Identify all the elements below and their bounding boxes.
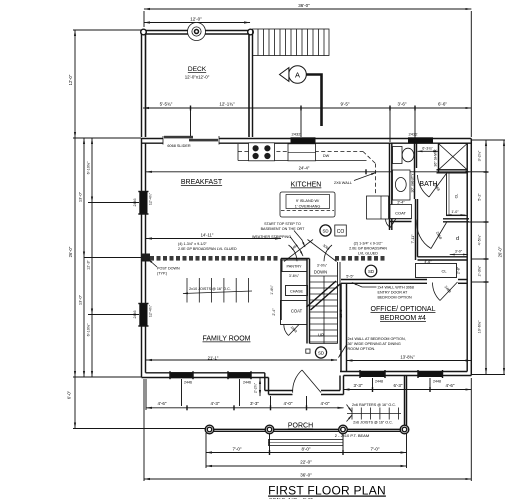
hall bottom wall (closet top) — [418, 256, 468, 258]
chase box — [286, 286, 308, 296]
window 2446 family b1 — [170, 372, 193, 378]
left dim line x75 6'-0" — [74, 377, 76, 429]
top exterior wall — [141, 138, 471, 140]
leader 2x4 wall bedroom — [339, 344, 348, 358]
leader 2x6 joists — [347, 415, 353, 422]
svg-text:2446: 2446 — [184, 381, 192, 385]
svg-text:2x6 RAFTERS @ 16" O.C.: 2x6 RAFTERS @ 16" O.C. — [352, 403, 396, 407]
svg-text:8'-0": 8'-0" — [302, 447, 311, 452]
office top wall — [341, 279, 427, 281]
tick y108 x301 — [300, 106, 302, 111]
stairs break lines — [307, 281, 337, 307]
deck center post circles — [188, 23, 206, 41]
beam hatch left run — [150, 256, 385, 261]
svg-text:9'-5": 9'-5" — [341, 102, 350, 107]
svg-text:10'-6¾": 10'-6¾" — [478, 320, 482, 333]
ext door center — [306, 396, 308, 406]
dim 12'-0" deck top — [144, 22, 250, 24]
leader 2x4 wall entry — [352, 283, 377, 288]
svg-text:22'-0": 22'-0" — [300, 460, 312, 465]
vanity — [393, 170, 411, 200]
svg-text:KITCHEN: KITCHEN — [291, 182, 322, 189]
svg-text:36" SHWR: 36" SHWR — [434, 149, 438, 167]
dim 13'-8 3/4" office y360.5 — [347, 360, 472, 362]
stair bottom open — [310, 343, 338, 345]
alcove bottom wall right — [321, 394, 344, 396]
kitchen sink — [288, 144, 316, 161]
bath bottom wall under coat — [390, 218, 412, 220]
deck corner post left — [141, 29, 147, 35]
svg-text:1' OVERHANG: 1' OVERHANG — [295, 205, 321, 209]
ext alcove left — [270, 396, 272, 406]
coat entry box — [281, 301, 308, 325]
shower left wall — [438, 143, 440, 173]
svg-text:4'-3": 4'-3" — [211, 401, 220, 406]
svg-text:ENTRY DOOR AT: ENTRY DOOR AT — [378, 291, 408, 295]
svg-text:CL: CL — [455, 194, 459, 199]
svg-text:2X6 WALL: 2X6 WALL — [334, 181, 352, 185]
svg-text:BEDROOM OPTION: BEDROOM OPTION — [378, 296, 413, 300]
front entry door arc — [293, 370, 302, 393]
svg-text:2x10 JOISTS @ 16" O.C.: 2x10 JOISTS @ 16" O.C. — [189, 287, 231, 291]
extension line top-left — [143, 11, 145, 27]
svg-text:1'-0": 1'-0" — [451, 210, 459, 214]
left dim branch y138 — [73, 137, 141, 139]
svg-text:12'-4¾": 12'-4¾" — [149, 192, 153, 205]
svg-text:2x4 WALL AT BEDROOM OPTION,: 2x4 WALL AT BEDROOM OPTION, — [348, 337, 406, 341]
right exterior wall — [470, 139, 472, 376]
svg-text:COAT: COAT — [395, 211, 406, 216]
svg-text:DOWN: DOWN — [314, 270, 327, 275]
porch post 3 — [339, 425, 348, 434]
joists symbol family room — [183, 291, 252, 294]
left dim line x84 13'-0" top — [83, 138, 85, 258]
deck corner post right — [248, 29, 254, 35]
ext bottom-left x144 — [143, 379, 145, 481]
leader 2x6 wall — [354, 173, 376, 181]
svg-text:4'-0": 4'-0" — [284, 401, 293, 406]
svg-text:14'-11": 14'-11" — [201, 233, 214, 238]
ticks bottom tier — [186, 405, 188, 410]
svg-text:36" WIDE OPENING AT DINING: 36" WIDE OPENING AT DINING — [348, 342, 401, 346]
cooktop — [249, 143, 275, 161]
svg-text:LVL GLUED: LVL GLUED — [358, 252, 378, 256]
svg-text:START TOP STEP TO: START TOP STEP TO — [264, 222, 301, 226]
6068 slider panels — [164, 136, 193, 139]
porch tier y452.5 — [206, 452, 407, 454]
family room bottom wall — [142, 377, 269, 379]
svg-text:30" VANITY: 30" VANITY — [411, 173, 415, 193]
svg-text:2446: 2446 — [133, 311, 137, 319]
svg-text:DECK: DECK — [188, 66, 207, 73]
porch post 2 — [265, 425, 274, 434]
ticks porch tier — [269, 450, 271, 455]
svg-text:3'-2¼": 3'-2¼" — [478, 150, 482, 161]
svg-text:7'-0": 7'-0" — [371, 447, 380, 452]
dim line 3'-0" bedroom door — [450, 254, 468, 256]
svg-text:SD: SD — [368, 269, 374, 274]
svg-text:2'-3¾": 2'-3¾" — [478, 265, 482, 276]
svg-text:2446: 2446 — [133, 199, 137, 207]
svg-text:DW: DW — [323, 154, 330, 158]
svg-text:2432: 2432 — [409, 132, 419, 137]
SD circle foyer — [315, 347, 326, 358]
svg-text:SD: SD — [322, 229, 328, 234]
svg-text:1'-4¾": 1'-4¾" — [270, 284, 274, 294]
svg-text:6'-10¾": 6'-10¾" — [87, 161, 91, 174]
linen closet box — [447, 173, 468, 216]
counter corner dashed — [363, 152, 376, 164]
svg-text:3'-0¾": 3'-0¾" — [317, 264, 328, 268]
porch joist symbol lines — [347, 413, 401, 415]
svg-text:12'-0": 12'-0" — [68, 74, 73, 85]
leader weather stripping — [290, 237, 303, 257]
window 2446 left w2 — [139, 304, 147, 327]
kitchen counter left end — [237, 144, 239, 161]
ticks office tier — [372, 387, 374, 392]
office left wall — [340, 283, 342, 371]
dim 14'-11" y238.5 — [146, 238, 281, 240]
slider opening white — [163, 137, 219, 146]
svg-text:6'-6": 6'-6" — [438, 102, 447, 107]
svg-text:d: d — [456, 236, 459, 242]
svg-text:4'-5¼": 4'-5¼" — [478, 234, 482, 245]
stair left wall (pantry column right) — [306, 259, 308, 344]
svg-text:3'-6": 3'-6" — [398, 102, 407, 107]
svg-text:2.0E GP BROADSPAN LVL GLUED: 2.0E GP BROADSPAN LVL GLUED — [178, 247, 237, 251]
basement door left leaf — [284, 240, 313, 262]
svg-text:COAT: COAT — [291, 309, 303, 314]
left dim branch y377 — [73, 376, 141, 378]
svg-text:(TYP.): (TYP.) — [157, 272, 167, 276]
svg-text:CHASE: CHASE — [290, 290, 304, 294]
vanity sink — [395, 178, 406, 192]
counter side dashed — [375, 164, 377, 196]
svg-text:3'-6¼": 3'-6¼" — [289, 274, 300, 278]
kitchen counter front — [238, 160, 288, 162]
svg-text:BEDROOM #4: BEDROOM #4 — [380, 315, 426, 322]
ext right wall down to y481 — [470, 378, 472, 481]
svg-text:2x4 WALL WITH 3068: 2x4 WALL WITH 3068 — [378, 286, 414, 290]
svg-text:12'-5": 12'-5" — [339, 308, 343, 318]
hall left wall — [415, 199, 417, 260]
svg-text:26'-0": 26'-0" — [498, 246, 503, 257]
porch post 4 corner — [400, 425, 409, 434]
branch window1 — [88, 202, 139, 204]
svg-text:(4) 1-3/4" x 9-1/2": (4) 1-3/4" x 9-1/2" — [178, 242, 208, 246]
office top wall right jamb — [458, 279, 467, 281]
svg-text:2448: 2448 — [375, 380, 383, 384]
svg-text:2'-2¾": 2'-2¾" — [254, 382, 258, 393]
tick y108 x390 — [389, 106, 391, 111]
dim line 1'-0" linen — [447, 214, 466, 216]
svg-text:(2) 1-3/4" x 9-1/2": (2) 1-3/4" x 9-1/2" — [354, 242, 384, 246]
ext window f2 — [239, 379, 241, 406]
svg-text:A: A — [295, 71, 300, 80]
SD circle hall — [365, 265, 377, 277]
stair newel post — [306, 349, 310, 353]
svg-text:4'-6": 4'-6" — [424, 260, 432, 264]
svg-text:5'-5": 5'-5" — [346, 275, 354, 279]
dim 36'-0" top — [144, 8, 471, 10]
deck stairs hatch — [253, 29, 330, 56]
stair right wall — [337, 262, 339, 344]
front entry door leaf — [302, 370, 321, 393]
pantry top wall — [281, 258, 310, 260]
leader 2x6 rafters — [347, 405, 353, 413]
CO box kitchen — [335, 225, 347, 236]
svg-text:2'-8": 2'-8" — [457, 266, 461, 274]
svg-text:7'-0": 7'-0" — [233, 447, 242, 452]
dim tier y108 — [143, 107, 471, 109]
porch right edge — [404, 376, 406, 430]
svg-text:BREAKFAST: BREAKFAST — [181, 179, 223, 186]
leader start top step — [294, 231, 305, 248]
svg-text:2x6 JOISTS @ 16" O.C.: 2x6 JOISTS @ 16" O.C. — [353, 421, 393, 425]
svg-text:CO: CO — [337, 229, 345, 235]
svg-text:BASEMENT ON THE ORT: BASEMENT ON THE ORT — [261, 227, 306, 231]
pantry box — [282, 260, 307, 272]
pantry column left wall — [280, 259, 282, 321]
bedroom door leaf — [431, 223, 447, 249]
svg-text:2 - 2x10 P.T. BEAM: 2 - 2x10 P.T. BEAM — [335, 433, 369, 438]
office door arc — [433, 283, 441, 301]
svg-text:CL: CL — [441, 269, 447, 274]
svg-text:12'-0": 12'-0" — [190, 17, 202, 22]
stairs treads — [310, 276, 338, 344]
dim 36'-0" bottom y479 — [144, 478, 471, 480]
porch beam box — [269, 440, 344, 446]
extension kitchen window — [300, 110, 302, 137]
right branches — [471, 139, 505, 141]
coat closet bath — [390, 205, 412, 219]
svg-text:4'-0": 4'-0" — [321, 401, 330, 406]
svg-text:12'-4¾": 12'-4¾" — [149, 304, 153, 317]
window 2432 kitchen (black bar) — [291, 137, 316, 143]
svg-text:12'-0"x12'-0": 12'-0"x12'-0" — [185, 75, 210, 80]
svg-text:6'-3¾": 6'-3¾" — [422, 147, 433, 151]
tick y108 x190 — [190, 106, 192, 111]
deck top rail — [141, 30, 253, 32]
svg-text:ROOM OPTION.: ROOM OPTION. — [348, 347, 376, 351]
window 2432 bath (black bar) — [408, 137, 433, 143]
porch post 1 — [205, 425, 214, 434]
kitchen island — [280, 192, 335, 217]
linen wall y220 — [443, 218, 469, 220]
svg-text:WEATHER STRIPPING: WEATHER STRIPPING — [252, 235, 291, 239]
svg-text:2'-4": 2'-4" — [272, 308, 276, 316]
svg-text:6068 SLIDER: 6068 SLIDER — [167, 144, 190, 148]
svg-text:6'-0": 6'-0" — [67, 390, 72, 399]
left dim line x92 12'-3" — [91, 203, 93, 315]
ext x146 down — [145, 379, 147, 410]
bath door arc — [418, 175, 430, 197]
svg-text:24'-4": 24'-4" — [299, 166, 310, 171]
left dim line x92 6'-10 3/4" — [91, 138, 93, 203]
shower bottom wall — [437, 169, 468, 171]
window 2446 left w1 — [139, 192, 147, 215]
svg-text:4'-6": 4'-6" — [446, 383, 455, 388]
kitchen upper cabinets dashed — [238, 151, 363, 153]
ext office w2 — [429, 378, 431, 388]
branch window2 — [88, 314, 139, 316]
deck left rail — [141, 31, 143, 138]
svg-text:POST DOWN: POST DOWN — [157, 267, 180, 271]
right branch y172 — [471, 171, 487, 173]
toilet bowl — [402, 148, 414, 162]
svg-text:PORCH: PORCH — [288, 423, 313, 430]
dim line 6'-3 3/4" bath — [418, 150, 439, 152]
alcove right jamb / office wall bottom — [339, 376, 341, 391]
extension bath window — [414, 110, 416, 142]
left dim line x84 13'-0" bottom — [83, 258, 85, 378]
entry alcove left jamb — [264, 373, 266, 391]
shower box — [439, 144, 468, 170]
svg-text:FAMILY ROOM: FAMILY ROOM — [203, 336, 251, 343]
extension bath wall — [389, 110, 391, 142]
svg-text:5'-2": 5'-2" — [478, 193, 482, 201]
right dim line x478.5 — [485, 140, 487, 374]
svg-text:12'-3": 12'-3" — [87, 260, 91, 270]
porch ext verticals — [205, 433, 207, 468]
svg-text:3'-3": 3'-3" — [250, 401, 259, 406]
bath door leaf — [429, 174, 446, 197]
section marker leader — [306, 75, 321, 127]
svg-text:5'-5¾": 5'-5¾" — [160, 102, 173, 107]
svg-text:6'-10¾": 6'-10¾" — [87, 323, 91, 336]
left exterior wall — [141, 139, 143, 378]
ext office w1 — [372, 378, 374, 388]
tick y172 x366 — [365, 169, 367, 174]
svg-text:2432: 2432 — [292, 132, 302, 137]
svg-text:36'-0": 36'-0" — [300, 473, 312, 478]
leader post down — [148, 259, 157, 267]
svg-text:2.0E GP BROADSPAN: 2.0E GP BROADSPAN — [349, 247, 387, 251]
office tier y389.5 — [344, 389, 472, 391]
section marker A circle — [289, 66, 307, 84]
porch front edge — [206, 428, 407, 430]
svg-text:3'-0": 3'-0" — [455, 250, 463, 254]
window 2448 office w2 — [418, 371, 443, 377]
bath left wall — [389, 143, 391, 230]
coat bath door — [386, 219, 397, 228]
toilet compartment right wall — [414, 143, 416, 199]
office bottom wall — [340, 371, 467, 373]
office closet CL box — [416, 264, 457, 278]
deck right rail — [252, 31, 254, 138]
alcove depth dim x261.5 — [259, 378, 261, 396]
right dim line 26'-0" x497.4 — [503, 140, 505, 374]
tick y108 x415 — [414, 106, 416, 111]
svg-text:OFFICE/ OPTIONAL: OFFICE/ OPTIONAL — [371, 306, 436, 313]
svg-text:4'-6": 4'-6" — [158, 401, 167, 406]
post down square — [142, 254, 151, 262]
toilet tank — [393, 147, 403, 164]
left dim line x75 deck 12'-0" — [74, 30, 76, 138]
svg-text:2'-4": 2'-4" — [397, 200, 405, 204]
SD circle kitchen — [320, 225, 331, 236]
bedroom door arc — [417, 220, 431, 249]
svg-text:FIRST FLOOR PLAN: FIRST FLOOR PLAN — [268, 484, 386, 498]
left dim branch beam y257.5 — [84, 257, 141, 259]
svg-text:13'-0": 13'-0" — [78, 191, 83, 202]
left dim branch y30 — [73, 29, 141, 31]
section marker triangle — [280, 68, 289, 82]
extension slider edge — [190, 110, 192, 136]
kitchen dim 24'-4" y172 — [146, 171, 471, 173]
svg-text:2446: 2446 — [243, 381, 251, 385]
ext window f1 — [181, 379, 183, 406]
basement door right leaf — [308, 240, 337, 262]
dim 22'-0" y466 — [206, 465, 407, 467]
dim 21'-1" y362 — [146, 359, 337, 361]
shower X — [439, 144, 468, 170]
svg-text:36'-0": 36'-0" — [298, 3, 310, 8]
right ticks x478.5 — [484, 171, 489, 173]
left branch porch front y428.5 — [73, 428, 206, 430]
svg-text:21'-1": 21'-1" — [208, 356, 219, 361]
svg-text:UP: UP — [318, 333, 324, 338]
left dim line x75 26'-0" — [74, 138, 76, 377]
svg-text:6'-3": 6'-3" — [394, 383, 403, 388]
extension line top-right — [470, 11, 472, 137]
svg-text:SD: SD — [318, 351, 324, 356]
svg-text:2448: 2448 — [433, 380, 441, 384]
svg-text:9' ISLAND W/: 9' ISLAND W/ — [296, 199, 320, 203]
window 2446 family b2 — [228, 372, 251, 378]
svg-text:13'-8¾": 13'-8¾" — [400, 355, 415, 360]
svg-text:26'-0": 26'-0" — [68, 246, 73, 257]
window 2448 office w1 — [360, 371, 385, 377]
alcove bottom wall left — [269, 394, 293, 396]
coat entry door — [284, 325, 299, 336]
svg-text:PANTRY: PANTRY — [286, 265, 302, 269]
left dim line x92 6'-10 3/4" b — [91, 315, 93, 378]
linen closet shelf line — [448, 173, 450, 216]
svg-text:12'-1¾": 12'-1¾" — [219, 102, 235, 107]
office door leaf — [440, 282, 458, 301]
svg-text:3'-3": 3'-3" — [354, 383, 363, 388]
svg-text:13'-0": 13'-0" — [78, 294, 83, 305]
svg-text:7'-11": 7'-11" — [411, 234, 415, 244]
fridge box — [367, 196, 389, 219]
bottom-left tier y407.8 — [146, 407, 344, 409]
